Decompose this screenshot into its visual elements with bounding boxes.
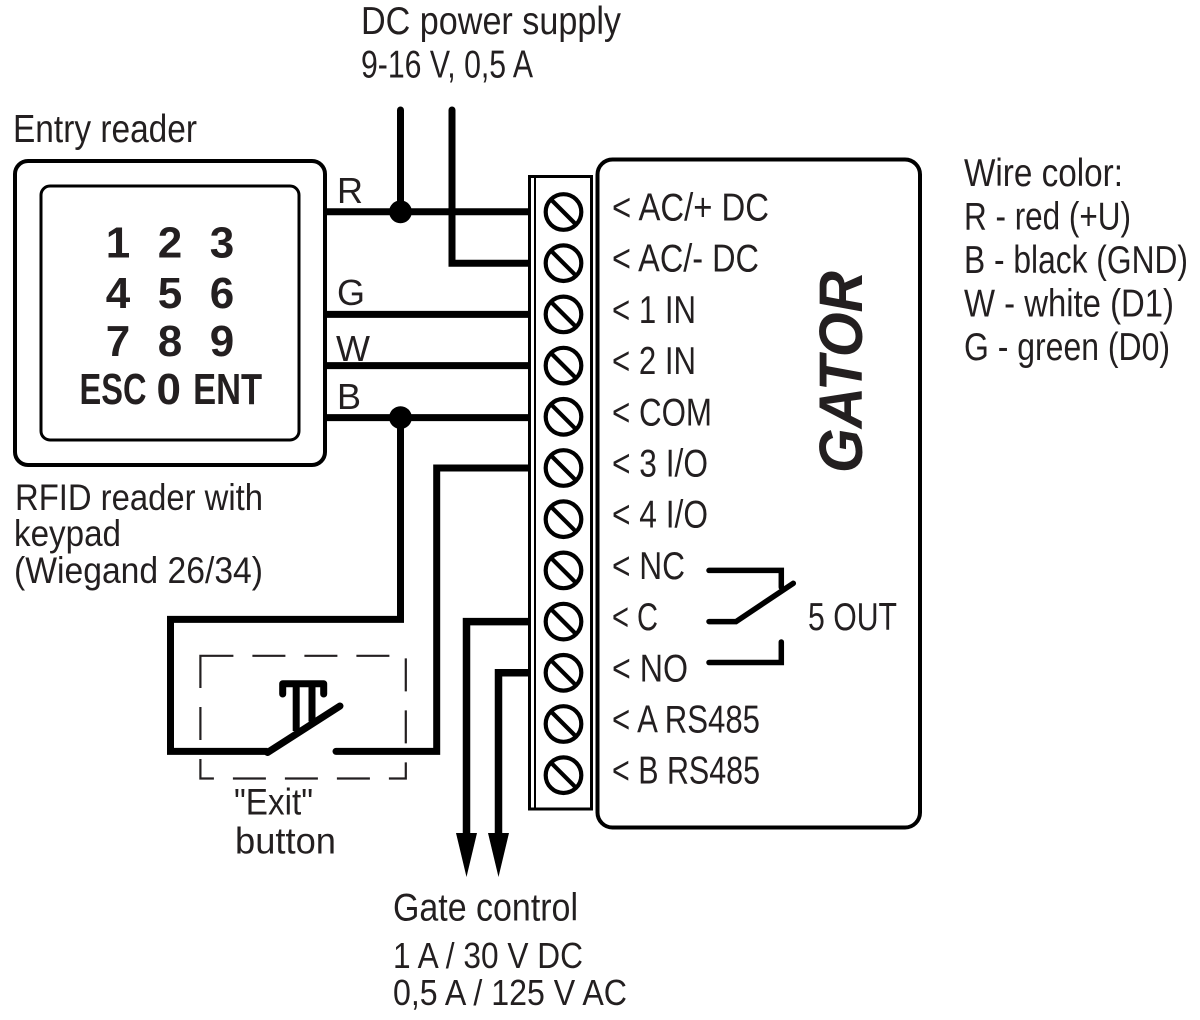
terminal screw 8 (NC) [546,553,582,589]
svg-text:keypad: keypad [14,513,121,554]
wire G (reader to 1 IN) [326,311,531,318]
svg-text:< B RS485: < B RS485 [612,750,760,793]
wire: C to gate control arrow 1 [467,622,532,836]
label: Exit button [234,782,336,862]
svg-text:Wire color:: Wire color: [964,152,1123,195]
svg-text:1 A / 30 V DC: 1 A / 30 V DC [393,935,583,976]
terminal screw 2 (AC/- DC) [546,245,582,281]
wire B (reader to COM) [326,414,531,421]
svg-text:Gate control: Gate control [393,887,578,930]
GATOR controller body U1 [598,160,921,828]
svg-text:ESC: ESC [80,365,147,414]
svg-text:B - black (GND): B - black (GND) [964,239,1188,282]
svg-text:< NC: < NC [612,545,685,588]
svg-text:G: G [337,272,365,313]
terminal screw 1 (AC/+ DC) [546,194,582,230]
svg-text:GATOR: GATOR [807,271,875,473]
svg-text:R - red (+U): R - red (+U) [964,196,1131,239]
label: RFID reader caption [14,477,263,591]
terminal screw 9 (C) [546,604,582,640]
switch arm: exit button [268,706,341,753]
svg-text:button: button [235,820,336,861]
terminal block inner rail line [534,177,536,810]
svg-text:Entry reader: Entry reader [13,108,197,151]
terminal block body [530,177,592,810]
relay contact NO lead [709,642,781,663]
svg-text:6: 6 [210,269,234,318]
label: DC power supply title [361,0,621,87]
svg-text:< AC/- DC: < AC/- DC [612,238,759,281]
svg-text:< 1 IN: < 1 IN [612,289,696,332]
svg-text:0: 0 [157,365,181,414]
wire: exit button left leg [171,418,401,752]
svg-text:9-16 V, 0,5 A: 9-16 V, 0,5 A [361,44,533,87]
terminal screw 12 (B RS485) [546,757,582,793]
keypad bottom row ESC 0 ENT [80,365,263,414]
junction: supply + to R wire [389,200,412,223]
svg-text:< 4 I/O: < 4 I/O [612,494,708,537]
terminal screw 10 (NO) [546,655,582,691]
wire: NO to gate control arrow 2 [499,673,532,836]
svg-text:5: 5 [158,269,182,318]
svg-text:"Exit": "Exit" [234,782,313,823]
svg-text:(Wiegand 26/34): (Wiegand 26/34) [14,550,263,591]
svg-text:W: W [336,328,370,369]
wire W (reader to 2 IN) [326,362,531,369]
svg-text:0,5 A / 125 V AC: 0,5 A / 125 V AC [393,972,627,1013]
svg-text:ENT: ENT [193,365,262,414]
svg-text:< A RS485: < A RS485 [612,699,760,742]
svg-text:5 OUT: 5 OUT [808,596,897,639]
relay contact NC lead [709,570,781,587]
exit button plunger [283,684,324,731]
entry reader inner panel [41,186,299,440]
svg-text:< COM: < COM [612,391,712,434]
terminal screw 5 (COM) [546,399,582,435]
svg-text:W - white (D1): W - white (D1) [964,283,1174,326]
keypad digits row 1 [106,219,234,268]
svg-text:R: R [337,170,363,211]
svg-text:9: 9 [210,317,234,366]
svg-text:< 2 IN: < 2 IN [612,340,696,383]
keypad digits row 2 [106,269,234,318]
svg-text:< AC/+ DC: < AC/+ DC [612,187,769,230]
keypad digits row 3 [106,317,234,366]
dashed enclosure: exit button [200,656,405,779]
terminal screw 6 (3 I/O) [546,450,582,486]
svg-text:< C: < C [612,596,658,639]
terminal screw 3 (1 IN) [546,297,582,333]
relay common lead and switch arm [709,583,793,621]
svg-text:8: 8 [158,317,182,366]
svg-text:2: 2 [158,219,182,268]
terminal screw 11 (A RS485) [546,706,582,742]
svg-text:3: 3 [210,219,234,268]
wire R (reader to AC/+ DC) [326,208,531,215]
svg-text:< 3 I/O: < 3 I/O [612,443,708,486]
svg-text:B: B [337,376,361,417]
wire: DC supply - drop to AC/- DC [452,110,531,263]
svg-text:G - green (D0): G - green (D0) [964,326,1170,369]
svg-text:< NO: < NO [612,647,688,690]
terminal screw 4 (2 IN) [546,348,582,384]
wire: exit button right leg to 3 I/O [336,468,531,751]
arrowhead: gate control 2 [488,833,509,877]
terminal screw 7 (4 I/O) [546,501,582,537]
svg-text:DC power supply: DC power supply [361,0,621,43]
junction: B wire to exit button [389,406,412,429]
label: Gate control caption [393,887,627,1014]
svg-text:4: 4 [106,269,131,318]
wire: DC supply + drop [397,110,404,212]
svg-text:RFID reader with: RFID reader with [15,477,263,518]
arrowhead: gate control 1 [456,833,477,877]
label: wire color legend [964,152,1188,369]
entry reader outer body [15,161,325,465]
svg-text:7: 7 [106,317,130,366]
svg-text:1: 1 [106,219,130,268]
